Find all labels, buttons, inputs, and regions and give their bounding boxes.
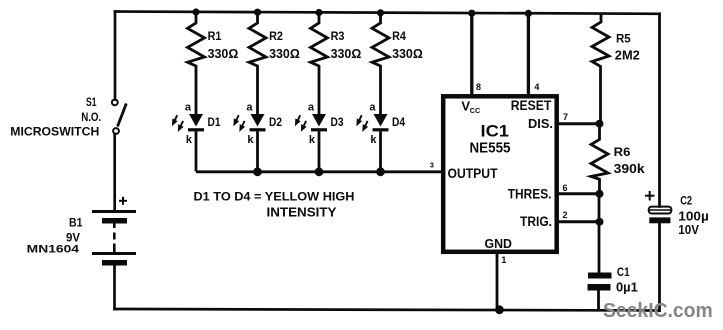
svg-text:S1: S1 (86, 97, 97, 109)
wire pin 1 GND (496, 252, 499, 310)
node R1 top (192, 8, 199, 15)
svg-text:a: a (185, 102, 192, 114)
svg-text:330Ω: 330Ω (269, 46, 300, 61)
op-amp IC1 box NE555 (443, 96, 557, 252)
svg-text:C2: C2 (680, 194, 692, 208)
wire bottom ground rail (115, 309, 660, 311)
capacitor C2 (649, 207, 672, 224)
resistor R1 (188, 14, 205, 114)
wire pin 7 DIS (557, 122, 600, 125)
node R3 top (315, 9, 322, 16)
resistor R5 (592, 14, 609, 124)
svg-text:NE555: NE555 (470, 140, 511, 157)
svg-text:a: a (246, 102, 253, 114)
svg-text:330Ω: 330Ω (392, 46, 423, 61)
svg-text:D1: D1 (208, 115, 221, 129)
resistor R2 (249, 14, 266, 114)
resistor R6 (591, 124, 608, 194)
svg-text:4: 4 (534, 82, 539, 92)
LED D1 (173, 102, 221, 172)
C2 plus sign (645, 191, 655, 201)
svg-text:k: k (309, 134, 316, 146)
node D3 cathode (315, 167, 324, 176)
svg-text:D4: D4 (392, 115, 405, 129)
svg-text:6: 6 (563, 183, 568, 193)
node D2 cathode (253, 167, 262, 176)
resistor R3 (311, 14, 328, 114)
node R2 top (254, 9, 261, 16)
svg-text:SeekIC.com: SeekIC.com (603, 300, 713, 322)
svg-text:R2: R2 (269, 29, 283, 43)
wire left vertical from rail to switch (114, 12, 117, 100)
svg-text:D1 TO D4 = YELLOW HIGH: D1 TO D4 = YELLOW HIGH (194, 191, 355, 203)
node GND bottom rail (495, 305, 504, 314)
node TRIG junction (596, 218, 604, 226)
svg-text:k: k (247, 134, 254, 146)
svg-text:1: 1 (501, 255, 506, 265)
wire C2 branch from top rail (658, 14, 661, 207)
wire top supply rail (115, 12, 660, 14)
svg-text:10V: 10V (678, 223, 699, 237)
svg-text:N.O.: N.O. (81, 112, 101, 124)
svg-text:100µ: 100µ (678, 209, 709, 223)
wire switch to battery (113, 134, 116, 211)
svg-text:RESET: RESET (511, 98, 552, 113)
capacitor C1 (588, 273, 612, 291)
wire pin 2 TRIG (557, 220, 600, 223)
svg-text:7: 7 (563, 112, 568, 122)
label Vcc (461, 99, 480, 116)
svg-text:MICROSWITCH: MICROSWITCH (10, 126, 99, 138)
svg-text:R4: R4 (392, 29, 406, 43)
svg-text:D3: D3 (331, 115, 344, 129)
node THRES junction (596, 190, 604, 198)
svg-text:390k: 390k (614, 161, 646, 176)
wire pin 6 THRES (557, 192, 600, 195)
svg-text:330Ω: 330Ω (208, 46, 239, 61)
svg-text:R1: R1 (208, 29, 222, 43)
wire battery to bottom rail (113, 266, 116, 310)
svg-text:IC1: IC1 (481, 121, 510, 140)
svg-text:INTENSITY: INTENSITY (267, 205, 338, 219)
svg-text:2: 2 (563, 210, 568, 220)
svg-text:CC: CC (470, 106, 481, 115)
svg-text:R3: R3 (331, 29, 345, 43)
svg-text:330Ω: 330Ω (331, 46, 362, 61)
svg-text:C1: C1 (617, 267, 630, 279)
svg-text:k: k (370, 134, 377, 146)
svg-text:TRIG.: TRIG. (520, 214, 552, 229)
svg-text:2M2: 2M2 (615, 48, 640, 63)
resistor R4 (372, 14, 389, 114)
svg-text:a: a (369, 102, 376, 114)
battery B1 (92, 210, 136, 266)
svg-text:DIS.: DIS. (528, 116, 553, 131)
svg-text:R5: R5 (616, 32, 631, 46)
svg-text:MN1604: MN1604 (27, 244, 80, 256)
LED D2 (235, 102, 283, 172)
node D4 cathode (376, 167, 385, 176)
svg-text:k: k (186, 134, 193, 146)
wire THRES to TRIG to C1 (598, 194, 601, 273)
svg-text:0µ1: 0µ1 (616, 280, 638, 294)
svg-text:THRES.: THRES. (508, 187, 552, 202)
node Vcc top (468, 10, 475, 17)
svg-text:OUTPUT: OUTPUT (448, 166, 499, 181)
wire C1 to bottom rail (597, 291, 600, 311)
node RESET top (525, 10, 532, 17)
switch S1 N.O. microswitch (112, 100, 126, 134)
node DIS junction (596, 120, 604, 128)
svg-text:GND: GND (485, 236, 513, 251)
wire LED cathode rail to pin 3 (196, 170, 441, 173)
LED D4 (358, 102, 406, 172)
svg-text:B1: B1 (69, 218, 83, 230)
wire pin 4 RESET (527, 13, 530, 96)
battery plus sign (119, 197, 127, 205)
battery internal dashed link (113, 224, 116, 253)
svg-text:8: 8 (476, 82, 481, 92)
svg-text:a: a (308, 102, 315, 114)
svg-text:R6: R6 (614, 145, 631, 159)
wire pin 8 Vcc (470, 13, 473, 96)
LED D3 (296, 102, 344, 172)
svg-text:3: 3 (430, 160, 434, 169)
node R4 top (377, 9, 384, 16)
wire C2 to bottom rail (658, 224, 661, 311)
svg-text:D2: D2 (269, 115, 282, 129)
